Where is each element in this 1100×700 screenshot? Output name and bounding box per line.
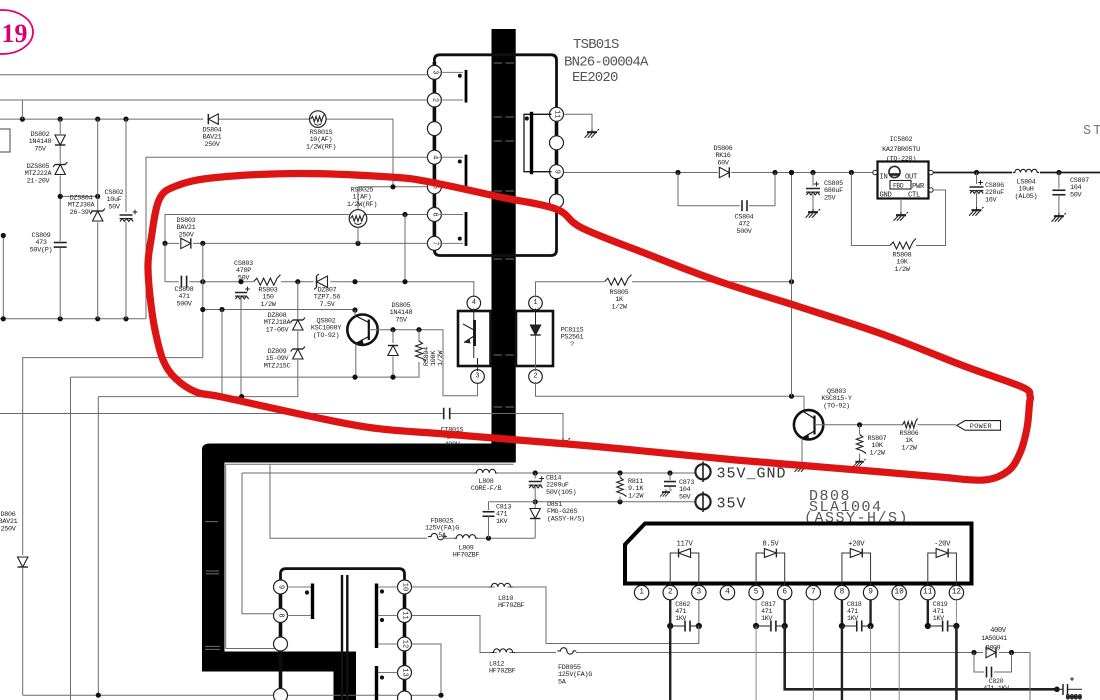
phase dot [525,116,529,120]
junction [200,279,205,284]
primary winding rail bottom [434,207,556,256]
inductor L808 [474,469,497,473]
junction [1056,170,1061,175]
wire pin7 row [165,242,427,244]
wire [1058,173,1060,189]
svg-text:IC5802: IC5802 [890,136,913,144]
wire collector row [203,309,355,311]
wire [534,520,536,539]
junction [123,316,128,321]
wire [60,195,97,197]
svg-text:400V: 400V [990,627,1007,635]
diode DS806 [719,167,729,177]
diode DS805 [388,346,398,356]
svg-text:KA27BR05TU: KA27BR05TU [882,146,920,154]
transformer pin nc [398,691,412,700]
wire [859,454,861,460]
svg-text:117V: 117V [676,541,693,549]
terminal 35V_GND [695,462,710,483]
winding stub [288,615,312,617]
wire bottom return row [23,694,441,696]
wire 35V row [535,501,695,503]
junction [438,693,443,698]
wire pin11 to ground [564,114,593,129]
winding polarity bar [465,212,468,246]
svg-text:BN26-00004A: BN26-00004A [564,55,649,71]
wire [535,336,537,371]
winding stub [533,171,550,173]
svg-text:CTL: CTL [908,192,920,200]
phase dot [380,618,384,622]
junction [1,316,6,321]
junction [416,327,421,332]
wire pin10 [898,600,900,700]
svg-text:DS803BAV21250V: DS803BAV21250V [177,217,196,239]
svg-text:8.5V: 8.5V [762,541,779,549]
ground CS806 [969,207,983,216]
winding stub [378,586,398,588]
transformer pin 2 [427,93,441,107]
wire QS803 base [803,396,805,411]
svg-text:0000: 0000 [1066,694,1082,700]
junction [200,241,205,246]
wire to D806 [23,358,203,555]
capacitor CB14 [529,476,544,488]
svg-text:PWR: PWR [912,183,925,191]
opto pin 2 [529,370,543,384]
wire [297,282,299,319]
capacitor C818 [857,621,862,632]
transformer pin 6 [427,208,441,222]
junction [352,307,357,312]
svg-text:11: 11 [553,110,561,118]
wire CS804 loop [678,173,775,206]
wire [59,176,61,242]
terminal 35V [695,492,710,513]
wire [125,119,127,212]
capacitor C819 [943,621,948,632]
opto LED [535,309,537,325]
secondary winding left vertical [279,582,283,700]
wire C820 loop [974,653,1012,673]
wire [534,502,536,508]
junction [355,241,360,246]
opto-coupler PC811S box right [516,311,553,366]
fuse FD802S [428,533,447,539]
ground near pin11 [585,129,599,138]
resistor RS804 [416,341,427,361]
wire [1058,195,1060,213]
capacitor CS806 [970,180,984,193]
zener DZ809 [291,347,305,360]
svg-text:2: 2 [668,589,673,597]
junction [849,170,854,175]
wire pin4 branch [146,157,427,319]
opto pin 3 [471,370,485,384]
winding stub [439,156,463,158]
wire [444,537,535,539]
svg-text:12: 12 [952,589,962,597]
wire [355,344,357,378]
transformer pin 10 [398,580,412,594]
primary winding rail top [434,55,556,108]
page number 19 badge [0,10,33,54]
SLA1004 pin 8 [835,585,849,599]
junction [238,279,243,284]
resistor RS8025 [349,210,367,228]
wire [859,425,861,434]
winding stub [378,672,398,674]
wire [669,473,671,480]
transformer pin 9 [550,165,564,179]
wire [976,193,978,208]
svg-text:5: 5 [754,589,759,597]
isolation barrier horizontal bar [202,444,516,652]
junction [95,194,100,199]
transformer pin nc [274,637,288,651]
wire 310V bus [0,119,393,187]
svg-text:11: 11 [923,589,933,597]
wire left edge [2,236,4,319]
junction [667,470,672,475]
wire [900,199,902,213]
phase dot [305,590,309,594]
phase dot [380,589,384,593]
wire pin5 row [358,186,427,188]
junction [162,241,167,246]
resistor RS803 [254,275,281,286]
zener DZ807 [314,274,328,289]
junction [58,194,63,199]
diode D851 [530,509,540,519]
junction [486,536,491,541]
wire [297,331,299,348]
wire [70,377,72,700]
wire [488,502,490,510]
wire secondary rail [564,172,873,174]
diode +20V [850,549,862,558]
winding stub [378,615,398,617]
junction [971,650,976,655]
resistor RS807 [856,435,866,454]
svg-text:GND: GND [880,192,892,200]
winding polarity bar [375,584,378,649]
opto LED diode [530,325,540,335]
SLA1004 pin 7 [806,585,820,599]
wire opto pin1 row [536,282,792,298]
resistor RS805 [605,275,632,286]
phase dot [458,160,462,164]
ground RS807 [853,459,865,466]
svg-text:(TO-220): (TO-220) [886,156,916,164]
primary winding left vertical [433,62,437,249]
junction [1009,650,1014,655]
svg-text:6: 6 [430,212,438,216]
junction [295,279,300,284]
diode 117V [679,549,691,558]
ground IC5802 [894,212,908,221]
capacitor C862 [685,621,690,632]
winding polarity bar [530,112,533,174]
ground CS807 [1052,213,1066,222]
wire [221,310,223,397]
svg-text:7: 7 [430,241,438,245]
wire fuse row [270,464,427,538]
zener DZS805 [53,162,67,175]
svg-text:2: 2 [533,373,537,381]
inductor L809 [454,535,477,539]
wire [22,568,24,695]
junction [352,279,357,284]
wire pin8 output [841,626,843,700]
wire [404,215,406,282]
junction [402,212,407,217]
capacitor CT801S [444,408,450,420]
secondary transformer rail [281,569,405,581]
winding polarity bar [375,666,378,700]
winding polarity bar [465,70,468,103]
SLA1004 pin 2 [663,585,677,599]
junction [772,170,777,175]
wire [534,487,536,502]
junction [58,316,63,321]
opto pin 1 [529,296,543,310]
wire inner [226,464,277,648]
rectifier diode -20V [928,553,957,585]
wire emitter row [71,362,420,377]
svg-text:RS801S10(AF)1/2W(RF): RS801S10(AF)1/2W(RF) [306,129,336,151]
winding polarity bar [465,155,468,190]
wire [619,473,621,478]
resistor RS801S [310,111,327,128]
junction [1054,687,1060,693]
junction [95,117,100,122]
svg-text:9: 9 [553,170,561,174]
transformer pin 5 [427,180,441,194]
winding stub [288,586,312,588]
flag POWER [957,421,1001,431]
winding stub [439,71,463,73]
wire rail to pin2 [0,99,427,101]
svg-text:-20V: -20V [934,541,951,549]
rectifier diode +20V [842,553,871,585]
wire [976,173,978,185]
wire [240,298,242,397]
secondary winding right vertical [403,582,407,700]
junction [390,184,395,189]
junction [352,375,357,380]
wire [202,243,204,357]
wire C819 node [927,600,929,626]
wire [59,146,61,163]
transformer pin 12 [398,637,412,651]
wire opto pin2 row [536,382,805,396]
SLA1004 pin 11 [921,585,935,599]
diode D809 [986,647,996,657]
junction [390,375,395,380]
wire CT801S row [0,414,563,439]
wire [418,330,420,341]
transformer pin 11 [398,609,412,623]
junction [974,170,979,175]
SLA1004 pin 10 [892,585,906,599]
transformer pin 8 [274,609,288,623]
wire collector row [815,424,957,426]
wire pin10 to L810 [412,587,699,644]
svg-text:10: 10 [401,583,409,591]
capacitor CS809 [54,243,67,248]
svg-text:FBD: FBD [893,183,904,190]
SLA1004 pin 12 [949,585,963,599]
svg-text:EE2020: EE2020 [572,70,618,86]
capacitor C817 [771,621,776,632]
wire rail to pin3 [0,74,427,76]
phase dot [458,237,462,241]
capacitor bottom right partial [1051,677,1082,700]
wire [357,228,359,244]
resistor R811 [617,478,627,497]
SLA1004 pin 5 [749,585,763,599]
junction [617,470,622,475]
wire [354,310,356,316]
inductor L810 [489,583,512,587]
junction [96,693,101,698]
inductor LS804 [1013,169,1039,172]
transformer pin nc [427,122,441,136]
wire [297,360,299,397]
transformer TSB01S core bar [492,29,516,463]
transformer pin nc [550,194,564,208]
opto phototransistor [463,309,478,372]
inductor L812 [491,649,514,653]
svg-text:ST: ST [1083,124,1100,139]
resistor R5808 [890,239,916,250]
transistor QS803 [794,410,823,439]
svg-text:6: 6 [782,589,787,597]
ground CS805 [806,209,820,218]
svg-text:OUT: OUT [905,174,918,182]
opto pin 4 [467,296,481,310]
junction [857,422,862,427]
wire C818 node [841,600,843,626]
transformer pin 3 [427,65,441,79]
svg-text:35V: 35V [717,496,747,513]
ground CT801S [556,438,570,447]
winding stub [378,643,398,645]
capacitor CS808 [181,276,186,288]
wire pin11 to L812 [412,616,974,653]
rectifier diode 8.5V [756,553,785,585]
wire [392,357,394,378]
phase dot [380,675,384,679]
diode 8.5V [764,549,776,558]
svg-text:8: 8 [840,589,845,597]
wire [357,187,359,210]
wire pin12 output [955,626,958,700]
svg-text:3: 3 [696,589,701,597]
wire [226,463,514,465]
red annotation loop [148,173,1031,480]
junction [20,117,25,122]
diode DS803 [181,238,191,248]
hybrid IC D808 SLA1004 box [625,524,972,584]
winding polarity bar [311,584,314,620]
wire pin12 branch [412,644,441,695]
svg-text:13: 13 [401,668,409,676]
junction [617,499,622,504]
wire C817 node [755,600,757,626]
wire [59,248,61,319]
transformer pin 7 [427,236,441,250]
transformer pin 9 [274,580,288,594]
svg-text:9: 9 [868,589,873,597]
resistor RS806 [903,418,918,428]
wire pin6 thick row [785,626,1057,689]
wire bottom bus [0,318,146,320]
svg-text:2: 2 [430,98,438,102]
ground C873 [660,490,672,497]
wire D809 node [974,653,1030,700]
junction [239,394,244,399]
svg-text:D809: D809 [986,645,1001,652]
svg-text:9: 9 [277,585,285,589]
junction [810,170,815,175]
wire [619,497,621,502]
svg-text:TSB01S: TSB01S [573,37,619,53]
transformer pin nc [274,689,288,700]
capacitor CS807 [1052,190,1065,195]
wire CTL feedback [916,190,946,246]
secondary winding right vertical [555,108,559,207]
capacitor C873 [664,482,676,487]
connector stub left edge [0,129,10,152]
SLA1004 pin 1 [634,585,648,599]
wire [489,501,536,503]
junction [675,170,680,175]
wire [812,194,814,209]
wire [669,486,671,490]
capacitor CS802 [120,210,138,222]
svg-text:4: 4 [725,589,730,597]
isolation barrier lower bar [202,652,356,700]
svg-text:19: 19 [2,19,28,48]
winding stub [439,214,463,216]
opto-coupler PC811S box left [458,311,491,366]
transistor QS802 [347,315,377,345]
winding stub [533,113,550,115]
svg-text:DZS805MTZJ22A21-20V: DZS805MTZJ22A21-20V [25,163,53,185]
wire 35V-GND row [242,473,695,614]
svg-text:7: 7 [811,589,816,597]
junction [123,117,128,122]
transformer pin 13 [398,666,412,680]
wire zener return row [98,396,298,398]
svg-text:12: 12 [401,640,409,648]
junction [789,170,794,175]
svg-text:DZS804MTZJ30A26-39V: DZS804MTZJ30A26-39V [68,195,96,217]
capacitor CS804 [742,200,747,211]
winding stub [439,186,463,188]
wire pin3 return [698,626,700,644]
svg-text:D806BAV21250V: D806BAV21250V [0,511,18,533]
rectifier diode 117V [670,553,699,585]
fuse FD8055 [558,648,577,654]
SLA1004 pin 4 [720,585,734,599]
junction [219,394,224,399]
svg-text:POWER: POWER [970,423,992,430]
SLA1004 pin 3 [692,585,706,599]
svg-text:DS804BAV21250V: DS804BAV21250V [203,127,222,149]
